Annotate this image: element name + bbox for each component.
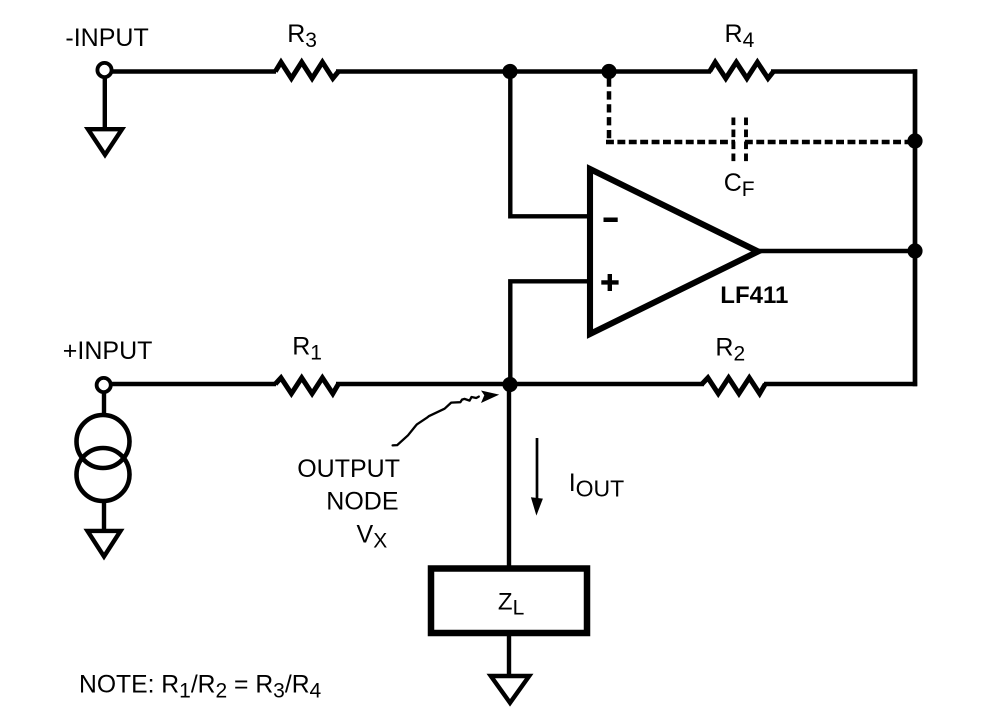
- wire terminal to current source: [102, 393, 106, 416]
- wire output node up to op-amp plus input: [510, 281, 592, 384]
- wire dashed node B to CF left plate: [606, 140, 735, 145]
- wire R3 to node A: [336, 69, 511, 73]
- wire R4 to right rail: [771, 69, 917, 73]
- node B (junction R4/CF): [601, 64, 616, 79]
- svg-text:-INPUT: -INPUT: [65, 24, 148, 52]
- output node annotation arrow: [393, 397, 479, 446]
- capacitor CF right plate: [744, 118, 748, 162]
- wire op-amp output to right rail: [756, 249, 915, 253]
- resistor R1: [275, 378, 338, 394]
- wire output node down to ZL: [507, 384, 511, 567]
- node A (junction minus input): [502, 64, 517, 79]
- wire terminal to ground: [103, 78, 107, 129]
- resistor R4: [710, 62, 774, 78]
- op-amp U1 LF411: [590, 169, 758, 334]
- svg-text:NODE: NODE: [326, 487, 398, 515]
- ground (top left): [88, 129, 122, 155]
- wire R1 to output node: [336, 382, 511, 386]
- wire node A down to op-amp minus input: [510, 72, 592, 217]
- node output junction on right rail: [907, 243, 922, 258]
- ground (below ZL): [491, 676, 529, 703]
- wire +INPUT to R1: [112, 382, 277, 386]
- wire ZL to ground: [507, 636, 511, 676]
- wire node B to R4: [609, 69, 711, 73]
- wire -INPUT to R3: [112, 69, 276, 73]
- wire dashed from node B down: [607, 78, 612, 138]
- ground (below current source): [88, 531, 121, 557]
- load ZL box: [431, 569, 587, 634]
- node CF-output junction: [907, 133, 922, 148]
- wire dashed CF right plate to right rail: [745, 140, 915, 145]
- wire right rail: [913, 69, 918, 386]
- node -INPUT terminal: [97, 63, 111, 77]
- resistor R3: [275, 62, 338, 78]
- svg-text:+INPUT: +INPUT: [63, 337, 153, 365]
- capacitor CF left plate: [731, 118, 735, 162]
- op-amp plus pin mark: [601, 274, 618, 291]
- svg-text:LF411: LF411: [720, 282, 788, 309]
- current source I1: [77, 415, 130, 468]
- wire R2 to right rail: [764, 382, 917, 386]
- wire output node to R2: [510, 382, 704, 386]
- resistor R2: [702, 378, 765, 394]
- svg-text:NOTE: R1/R2 = R3/R4: NOTE: R1/R2 = R3/R4: [79, 672, 322, 703]
- op-amp minus pin mark: [604, 218, 618, 223]
- current IOUT arrow: [536, 438, 539, 503]
- node +INPUT terminal: [97, 378, 111, 392]
- wire current source to ground: [102, 503, 106, 531]
- wire node A to node B: [510, 69, 610, 73]
- svg-text:OUTPUT: OUTPUT: [297, 455, 400, 483]
- node Vx output node: [502, 377, 517, 392]
